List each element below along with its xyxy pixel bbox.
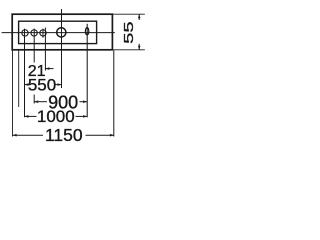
arrowhead 900 left	[34, 100, 38, 103]
svg-text:1000: 1000	[37, 107, 75, 126]
extension line from circle 2 upper	[33, 29, 35, 63]
hole circle 2	[31, 30, 37, 36]
arrowhead 21 left	[45, 67, 49, 70]
outer body rectangle	[12, 14, 112, 50]
extension line 55 top	[112, 13, 144, 15]
extension line slot center	[86, 24, 88, 118]
extension line outer right	[113, 51, 115, 137]
extension line outer left	[12, 51, 14, 137]
dimension line 55 upper stub	[138, 14, 140, 20]
hole circle 1	[22, 30, 28, 36]
dimension line 550 right	[55, 84, 62, 86]
dimension line 900 right	[80, 101, 88, 103]
arrowhead 550 left	[25, 83, 29, 86]
svg-text:1150: 1150	[45, 125, 83, 145]
arrowhead 1150 left	[13, 134, 17, 137]
arrowhead 900 right	[83, 100, 87, 103]
extension line 21 partner	[44, 28, 46, 71]
arrowhead 1000 left	[25, 115, 29, 118]
hole circle 3	[40, 30, 46, 36]
arrowhead 550 right	[58, 83, 62, 86]
inner panel rectangle	[19, 21, 97, 43]
extension line big circle center	[61, 9, 63, 88]
dimension line 1000 right	[76, 115, 88, 117]
arrowhead 1000 right	[83, 115, 87, 118]
dimension line 550 left	[25, 84, 30, 86]
dimension line 55 lower stub	[138, 44, 140, 50]
svg-text:55: 55	[122, 21, 136, 44]
dimension line 900 left	[34, 101, 47, 103]
extension line from circle 1	[24, 29, 26, 118]
arrowhead 55 down	[138, 46, 141, 50]
dimension line 21 arrow tail	[45, 68, 53, 70]
horizontal centerline	[2, 32, 115, 34]
extension line 55 bottom	[112, 49, 144, 51]
arrowhead 55 up	[138, 14, 141, 18]
large knockout circle	[57, 28, 66, 37]
extension line inner left	[18, 50, 20, 107]
dimension line 1150 right	[86, 134, 114, 136]
extension line from circle 2 lower	[33, 95, 35, 104]
center tick circle 3	[42, 29, 44, 38]
mounting slot ellipse	[85, 28, 88, 35]
dimension line 1000 left	[25, 115, 37, 117]
dimension line 1150 left	[13, 134, 43, 136]
arrowhead 1150 right	[110, 134, 114, 137]
